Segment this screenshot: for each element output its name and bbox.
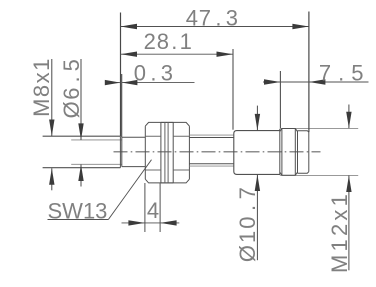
dim 4 arrow right: [160, 220, 177, 225]
dim M8x1 upper line: [51, 59, 53, 136]
part right edge: [308, 132, 310, 172]
dim D10.7 lower arrow: [255, 175, 260, 192]
dim D6.5 lower line: [80, 165, 82, 187]
dim 0.3 arrow right: [122, 80, 137, 85]
dim 0.3 arrow left: [105, 80, 121, 85]
sleeve outline: [122, 137, 146, 166]
dim 7.5 left extension: [279, 71, 281, 128]
hex1 face lines: [146, 136, 161, 170]
dim 4 right extension: [159, 183, 161, 232]
centerline: [114, 151, 321, 153]
dim 4 line: [122, 222, 180, 224]
dim D6.5 upper line: [80, 59, 82, 140]
dim M8x1 lower arrow: [49, 168, 54, 185]
dim 4 arrow left: [128, 220, 145, 225]
dim D10.7 upper arrow: [255, 114, 260, 130]
dim 47.3 arrow left: [121, 24, 138, 29]
svg-text:M12x1: M12x1: [327, 191, 352, 273]
dim 7.5 arrow left: [264, 79, 280, 84]
dim M8x1 upper arrow: [49, 120, 54, 137]
thread end edge: [119, 136, 121, 168]
hex nut SW13 outline top: [145, 122, 189, 126]
hex1 left edge: [144, 126, 146, 179]
svg-text:7.5: 7.5: [319, 61, 366, 86]
hex nut SW13 outline bottom: [145, 179, 189, 183]
band outline: [280, 129, 298, 176]
hex2 face lines: [173, 136, 189, 170]
hex1 right edge: [160, 122, 162, 182]
dim 47.3 line: [121, 26, 309, 28]
dim M8x1 lower line: [51, 168, 53, 190]
cylinder right edge / band left edge: [279, 129, 281, 175]
dim 28.1 line: [121, 53, 234, 55]
end cylinder outline: [298, 131, 309, 174]
dim M12x1 lower line: [348, 176, 350, 271]
dim D6.5 lower arrow: [78, 165, 83, 182]
dim 0.3 line left tail: [105, 82, 120, 84]
label SW13 leader: [109, 160, 152, 220]
dim 28.1 arrow left: [121, 52, 138, 57]
svg-text:Ø6.5: Ø6.5: [59, 58, 84, 119]
dim 0.3 second extension: [121, 74, 123, 137]
right shaft crest top: [189, 134, 233, 136]
hex2 right edge: [188, 126, 190, 179]
right shaft root top: [189, 137, 233, 139]
dim 4 left extension: [144, 183, 146, 232]
hex2 left edge: [172, 122, 174, 182]
dim M12x1 lower arrow: [346, 176, 351, 193]
right shaft root bottom: [189, 163, 233, 165]
hex nut groove top line: [161, 121, 173, 123]
thread M8 root top: [71, 139, 121, 141]
svg-text:4: 4: [147, 198, 159, 223]
groove cylinder edges: [165, 122, 168, 182]
dim D10.7 upper line: [256, 106, 258, 131]
thread M8 crest bottom: [43, 167, 121, 169]
dim 0.3 line right tail: [122, 82, 195, 84]
M12 crest line bottom: [280, 174, 358, 176]
hex nut groove bottom line: [161, 182, 173, 184]
dim 7.5 arrow right: [309, 79, 326, 84]
dim 47.3 right extension / part edge extended: [308, 12, 310, 133]
dim 28.1 arrow right: [217, 52, 234, 57]
svg-text:0.3: 0.3: [134, 60, 174, 85]
dim 7.5 line: [263, 81, 369, 83]
svg-text:M8x1: M8x1: [29, 57, 54, 117]
label SW13 underline: [48, 219, 109, 221]
dim D10.7 lower line: [256, 175, 258, 261]
band inner verticals: [282, 129, 295, 176]
dim 47.3 arrow right: [292, 24, 309, 29]
dim D6.5 upper arrow: [78, 123, 83, 139]
M12 crest line top: [280, 127, 358, 129]
dim M12x1 upper arrow: [346, 112, 351, 129]
dim 28.1 right extension: [232, 49, 234, 130]
dim M12x1 upper line: [348, 105, 350, 129]
band right edge: [297, 131, 299, 174]
cylinder D10.7 outline: [234, 131, 280, 175]
right shaft crest bottom: [189, 165, 233, 167]
svg-text:Ø10.7: Ø10.7: [235, 185, 260, 262]
svg-text:28.1: 28.1: [144, 29, 193, 54]
dim 47.3 left extension: [120, 13, 122, 137]
thread M8 crest top: [43, 135, 121, 137]
thread M8 root bottom: [71, 163, 121, 165]
